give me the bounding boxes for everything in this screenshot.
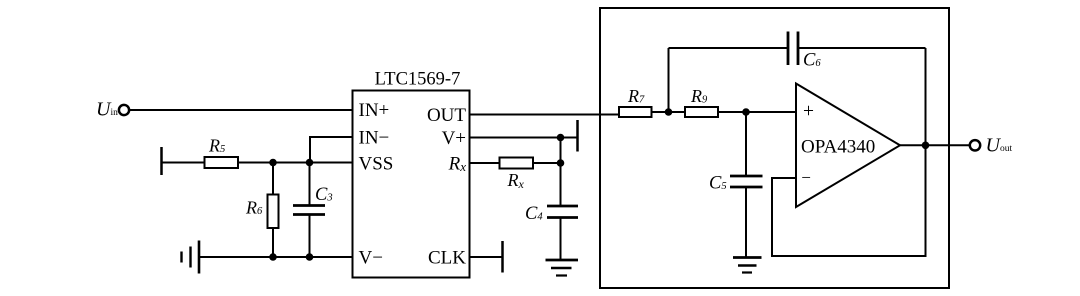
junction R9/C5	[742, 108, 750, 116]
svg-text:−: −	[801, 168, 811, 187]
resistor R5	[205, 157, 239, 168]
capacitor C4	[547, 206, 578, 218]
resistor Rx	[500, 158, 534, 169]
svg-text:R5: R5	[208, 136, 225, 156]
svg-text:Rx: Rx	[507, 170, 525, 191]
svg-text:V−: V−	[359, 247, 383, 268]
ground below C4	[546, 260, 579, 276]
terminal stub CLK	[501, 241, 504, 273]
terminal stub left of R5	[160, 147, 163, 175]
svg-text:C5: C5	[709, 174, 727, 194]
capacitor C6	[788, 32, 798, 66]
wire op-amp output	[900, 144, 971, 146]
IC U1 LTC1569-7 body	[353, 91, 470, 278]
wire C6 right plate across	[798, 47, 926, 49]
input terminal Uin	[119, 105, 129, 115]
resistor R9	[685, 107, 718, 117]
wire bottom rail to V-	[199, 256, 353, 258]
wire OUT to R7	[470, 114, 621, 116]
junction output/feedback	[922, 142, 930, 150]
junction V+	[557, 134, 565, 142]
svg-text:IN−: IN−	[359, 127, 390, 148]
junction R5/R6	[269, 159, 277, 167]
terminal stub V+	[576, 120, 579, 152]
wire R9 to op-amp +	[718, 111, 796, 113]
enclosure box	[600, 8, 949, 288]
svg-text:Uout: Uout	[986, 134, 1013, 156]
svg-text:C6: C6	[803, 51, 821, 71]
svg-text:OPA4340: OPA4340	[801, 137, 875, 158]
wire Rx to junction	[533, 162, 561, 164]
wire C6 feedback up	[668, 48, 670, 112]
wire R7 to R9	[652, 111, 686, 113]
svg-text:V+: V+	[442, 128, 466, 149]
wire to C6 left plate	[669, 47, 789, 49]
svg-text:+: +	[803, 101, 814, 122]
junction C3/rail	[306, 253, 314, 261]
wire R5 to VSS	[238, 162, 353, 164]
wire Uin to IN+	[130, 109, 353, 111]
wire C4 to ground	[560, 218, 562, 261]
wire V+ junction to C4	[560, 138, 562, 207]
svg-text:IN+: IN+	[359, 100, 390, 121]
wire junction to C5	[745, 112, 747, 176]
wire CLK pin	[470, 256, 503, 258]
svg-text:CLK: CLK	[428, 247, 466, 268]
junction Rx/C4	[557, 159, 565, 167]
resistor R7	[619, 107, 652, 117]
wire C3 to bottom rail	[309, 215, 311, 258]
resistor R6	[268, 195, 279, 229]
ground left (rotated)	[182, 241, 200, 274]
svg-text:Rx: Rx	[448, 153, 467, 174]
svg-text:R6: R6	[245, 198, 263, 218]
capacitor C5	[730, 176, 763, 187]
svg-text:Uin: Uin	[96, 98, 118, 120]
svg-text:R9: R9	[690, 86, 708, 106]
wire stub to R5	[162, 162, 205, 164]
wire IN- jog	[310, 137, 353, 163]
wire C5 to ground	[745, 187, 747, 258]
wire C6 down to output	[925, 48, 927, 145]
junction VSS/C3/IN-	[306, 159, 314, 167]
ground below C5	[733, 258, 762, 273]
svg-text:OUT: OUT	[427, 105, 466, 126]
svg-text:LTC1569-7: LTC1569-7	[375, 70, 461, 90]
wire V+ pin	[470, 137, 578, 139]
svg-text:C3: C3	[315, 185, 333, 205]
op-amp U2 OPA4340	[796, 84, 900, 208]
wire junction to R6	[272, 163, 274, 195]
wire feedback to - input	[772, 145, 926, 256]
svg-text:R7: R7	[627, 86, 645, 106]
svg-text:C4: C4	[525, 204, 543, 224]
junction R7/C6	[665, 108, 673, 116]
svg-text:VSS: VSS	[359, 153, 394, 174]
junction R6/rail	[269, 253, 277, 261]
wire R6 to bottom rail	[272, 228, 274, 257]
wire Rx pin to resistor	[470, 162, 500, 164]
output terminal Uout	[970, 140, 980, 150]
wire junction to C3	[309, 163, 311, 206]
capacitor C3	[293, 206, 325, 215]
